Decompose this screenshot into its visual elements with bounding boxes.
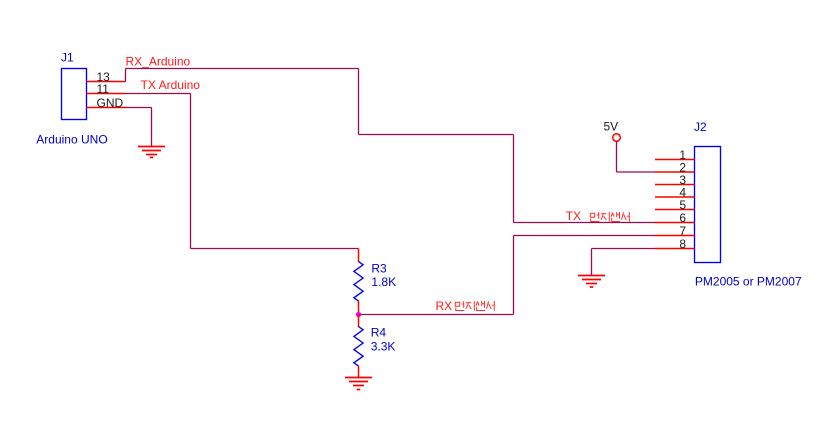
wire TX Arduino horizontal from pin 11 bbox=[126, 93, 191, 95]
wire RX to J2 pin 7 bbox=[514, 235, 656, 237]
svg-text:R4: R4 bbox=[371, 326, 387, 340]
wire RX_Arduino vertical mid bbox=[358, 69, 360, 135]
J2 pin 1 stub bbox=[655, 159, 695, 161]
connector J2 body bbox=[695, 147, 721, 263]
svg-text:8: 8 bbox=[679, 237, 686, 251]
net label RX hangul 먼지센서 bbox=[455, 301, 494, 311]
resistor R4 bbox=[354, 315, 363, 378]
svg-text:GND: GND bbox=[97, 96, 124, 110]
J2 pin 3 stub bbox=[655, 184, 695, 186]
wire TX Arduino vertical drop bbox=[190, 94, 192, 249]
wire pin 8 ground drop bbox=[591, 249, 593, 276]
svg-text:3.3K: 3.3K bbox=[371, 340, 396, 354]
wire RX_Arduino horizontal mid bbox=[359, 134, 514, 136]
svg-text:5V: 5V bbox=[604, 120, 619, 134]
net label TX hangul 먼지센서 bbox=[590, 212, 629, 222]
J2 pin 8 stub bbox=[655, 248, 695, 250]
svg-text:TX: TX bbox=[566, 209, 581, 223]
wire 5V to J2 pin 2 bbox=[617, 171, 656, 173]
svg-text:1.8K: 1.8K bbox=[371, 275, 396, 289]
J1 pin 13 stub bbox=[87, 81, 126, 83]
wire RX_Arduino vertical right bbox=[513, 135, 515, 223]
svg-text:PM2005 or PM2007: PM2005 or PM2007 bbox=[695, 275, 802, 289]
ground symbol at J1 GND bbox=[138, 147, 165, 158]
connector J1 body bbox=[62, 69, 87, 120]
wire RX_Arduino horizontal top bbox=[126, 68, 359, 70]
ground symbol below R4 bbox=[345, 378, 372, 390]
J1 pin 11 stub bbox=[87, 93, 126, 95]
junction node divider bbox=[356, 312, 361, 317]
wire RX vertical up bbox=[513, 236, 515, 315]
svg-text:5: 5 bbox=[679, 198, 686, 212]
J2 pin 7 stub bbox=[655, 235, 695, 237]
svg-text:RX_Arduino: RX_Arduino bbox=[126, 55, 191, 69]
resistor R3 bbox=[354, 249, 363, 315]
J2 pin 6 stub bbox=[655, 222, 695, 224]
J2 pin 5 stub bbox=[655, 209, 695, 211]
J2 pin 4 stub bbox=[655, 196, 695, 198]
5V terminal circle bbox=[613, 134, 621, 142]
svg-text:R3: R3 bbox=[371, 261, 387, 275]
svg-text:7: 7 bbox=[679, 224, 686, 238]
svg-text:Arduino UNO: Arduino UNO bbox=[36, 133, 107, 147]
svg-text:RX: RX bbox=[436, 299, 453, 313]
svg-text:J1: J1 bbox=[61, 51, 74, 65]
svg-text:J2: J2 bbox=[694, 120, 707, 134]
wire RX divider junction to right bbox=[359, 314, 514, 316]
wire 5V drop bbox=[616, 142, 618, 173]
svg-text:TX Arduino: TX Arduino bbox=[141, 78, 201, 92]
wire GND drop to ground bbox=[151, 108, 153, 147]
ground symbol at J2 pin 8 bbox=[578, 276, 605, 288]
wire J2 pin 8 to ground bbox=[592, 248, 656, 250]
J2 pin 2 stub bbox=[655, 171, 695, 173]
svg-text:11: 11 bbox=[97, 82, 110, 96]
J1 pin GND stub bbox=[87, 107, 126, 109]
wire to J2 pin 6 bbox=[514, 222, 656, 224]
svg-text:6: 6 bbox=[679, 211, 686, 225]
wire GND from J1 bbox=[126, 107, 152, 109]
wire TX Arduino to R3 bbox=[191, 248, 359, 250]
wire RX_Arduino riser at pin 13 bbox=[125, 69, 127, 82]
